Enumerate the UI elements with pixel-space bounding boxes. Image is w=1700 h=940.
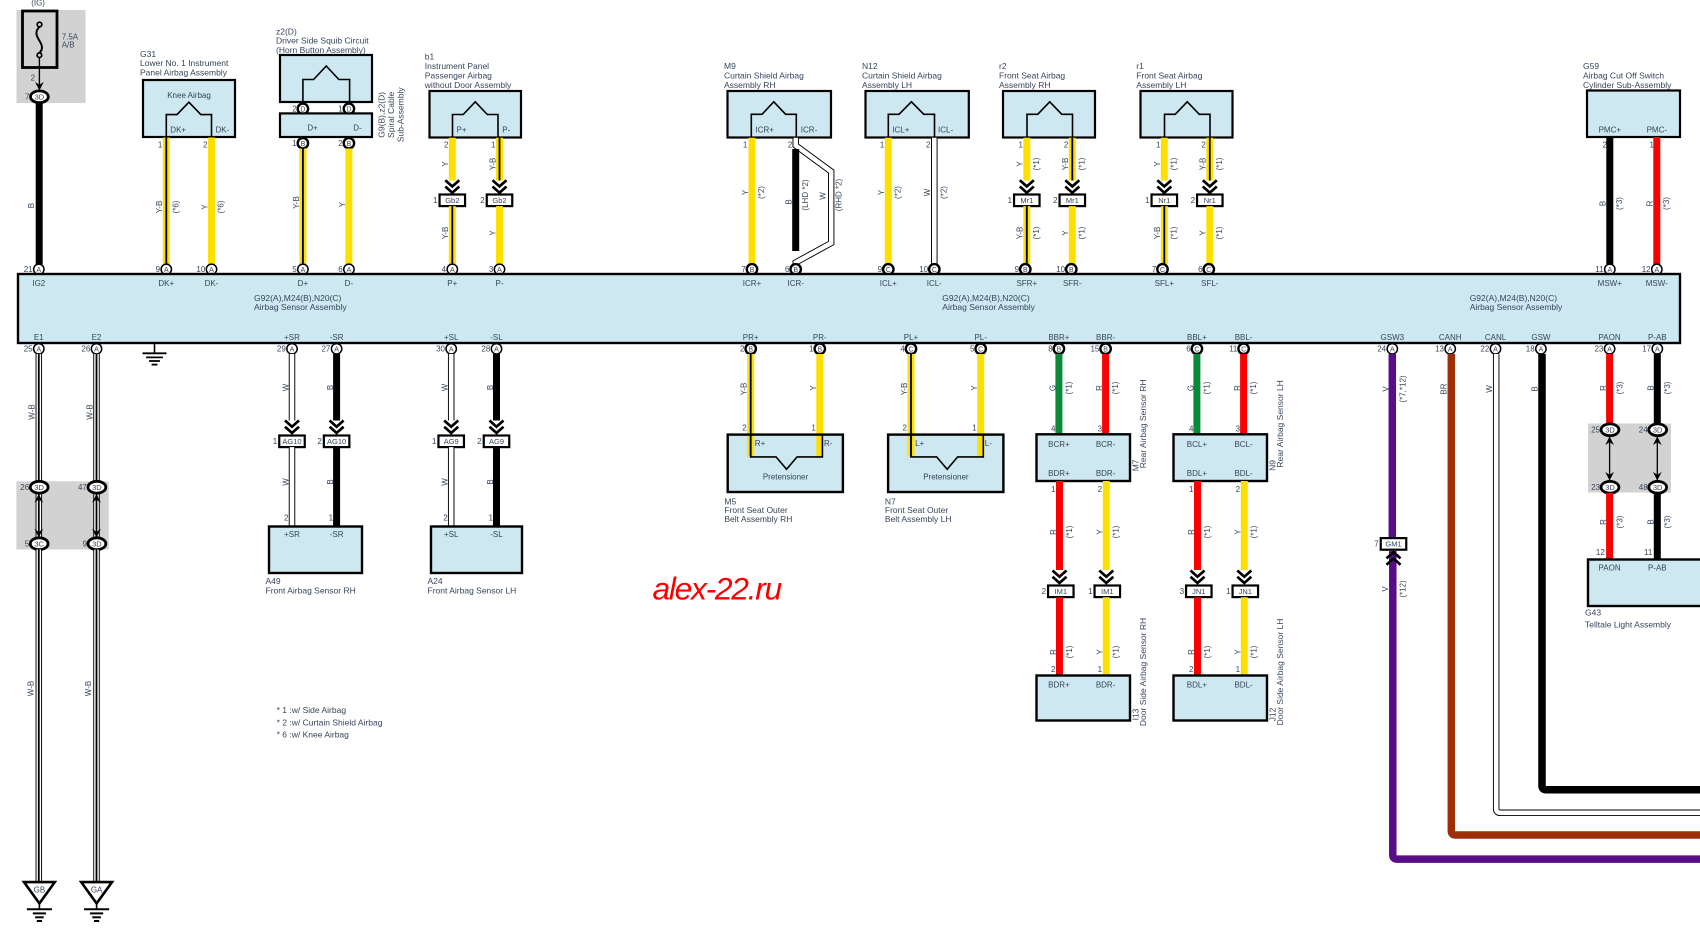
svg-text:CANL: CANL <box>1485 333 1507 342</box>
svg-text:B: B <box>326 479 335 484</box>
wire Y-B (r2-2 upper) <box>1069 138 1076 181</box>
svg-text:B: B <box>347 141 352 148</box>
pin 2 of I13 <box>1051 665 1056 674</box>
svg-text:DK-: DK- <box>205 279 219 288</box>
pin 11 of G43 <box>1644 548 1653 557</box>
svg-text:B: B <box>817 346 822 353</box>
svg-text:A: A <box>1390 346 1395 353</box>
svg-text:6: 6 <box>1198 265 1203 274</box>
svg-text:2: 2 <box>443 514 448 523</box>
wire label B <box>486 385 495 390</box>
component b1 box <box>430 91 522 138</box>
pin 1 of A24 <box>489 514 494 523</box>
wire Y-B labels <box>292 196 301 209</box>
wire label W <box>441 478 450 486</box>
svg-text:29: 29 <box>277 345 286 354</box>
pin 2 of N7 <box>903 424 908 433</box>
wire Y-B (P+ lower) <box>449 206 456 264</box>
svg-text:1: 1 <box>1008 196 1013 205</box>
svg-text:2: 2 <box>1098 485 1103 494</box>
pin 1 of r1 <box>1156 140 1161 149</box>
pin 1 of N9 <box>1189 485 1194 494</box>
svg-text:GM1: GM1 <box>1385 540 1401 549</box>
svg-text:W-B: W-B <box>85 404 94 419</box>
svg-text:(*1): (*1) <box>1170 157 1179 170</box>
svg-text:1: 1 <box>292 139 297 148</box>
wire V (GSW3 upper) <box>1389 354 1397 538</box>
svg-text:Gb2: Gb2 <box>492 196 506 205</box>
svg-text:BDL-: BDL- <box>1234 469 1253 478</box>
svg-text:10: 10 <box>1056 265 1065 274</box>
svg-text:Assembly LH: Assembly LH <box>1136 80 1186 90</box>
svg-text:W-B: W-B <box>84 681 93 696</box>
component J12 name (rotated) <box>1267 707 1277 721</box>
wire G (BBL+) <box>1193 354 1200 435</box>
svg-text:V: V <box>1381 586 1390 592</box>
svg-text:DK-: DK- <box>216 126 230 135</box>
wire labels R (*1) <box>1187 645 1212 658</box>
wire label B <box>27 203 36 208</box>
svg-text:Y-B: Y-B <box>1061 158 1070 171</box>
svg-text:R: R <box>1599 519 1608 525</box>
wire Y labels <box>200 200 225 213</box>
svg-text:Y: Y <box>1234 529 1243 535</box>
node 6(C) BBL+ <box>1186 344 1202 354</box>
svg-text:Airbag Sensor Assembly: Airbag Sensor Assembly <box>1470 302 1563 312</box>
pin 2 of M5 <box>742 424 747 433</box>
component G31 box <box>143 80 235 137</box>
node 6(B) ICR- <box>785 264 801 274</box>
svg-text:IM1: IM1 <box>1055 587 1068 596</box>
wire label W-B <box>85 404 94 419</box>
node 18(A) GSW <box>1526 344 1546 354</box>
svg-text:B: B <box>1647 385 1656 390</box>
svg-text:B: B <box>1103 346 1108 353</box>
component A24 title <box>428 576 517 596</box>
svg-text:10: 10 <box>919 265 928 274</box>
svg-text:48: 48 <box>1639 483 1648 492</box>
svg-text:2: 2 <box>477 437 482 446</box>
arrow out of GM1 <box>1387 552 1401 565</box>
svg-text:SFL-: SFL- <box>1201 279 1219 288</box>
wire Y-B label <box>488 158 497 171</box>
pin 2 of G31 <box>203 140 208 149</box>
band bottom pin names <box>34 333 1667 342</box>
svg-text:2: 2 <box>1064 140 1069 149</box>
wire B (P-AB lower) <box>1654 493 1661 560</box>
svg-text:(LHD *2): (LHD *2) <box>801 179 810 210</box>
svg-text:3D: 3D <box>35 93 45 102</box>
svg-text:BBR-: BBR- <box>1096 333 1115 342</box>
svg-text:Y-B: Y-B <box>1153 227 1162 240</box>
component I13 name (rotated) <box>1130 708 1140 720</box>
M9 pin labels ICR+ ICR- <box>756 126 818 135</box>
wire labels B (*3) <box>1647 515 1672 528</box>
svg-text:Y-B: Y-B <box>292 196 301 209</box>
svg-text:7: 7 <box>1152 265 1157 274</box>
wire labels B (*3) <box>1599 197 1624 210</box>
svg-text:3D: 3D <box>1653 426 1663 435</box>
svg-text:3: 3 <box>1098 424 1103 433</box>
pin 2 of N9 <box>1236 485 1241 494</box>
wire Y labels <box>741 186 766 199</box>
svg-text:9: 9 <box>156 265 161 274</box>
wire Y (P+ upper) <box>449 138 456 181</box>
svg-text:MSW-: MSW- <box>1646 279 1668 288</box>
pin 1 of I13 <box>1098 665 1103 674</box>
svg-text:A49: A49 <box>266 576 281 586</box>
junction arrows P-AB <box>1653 436 1662 481</box>
pin 1 of N12 <box>880 140 885 149</box>
svg-text:(*3): (*3) <box>1615 381 1624 394</box>
component r2 title <box>999 61 1065 90</box>
svg-text:Pretensioner: Pretensioner <box>923 473 969 482</box>
svg-text:PAON: PAON <box>1599 333 1621 342</box>
svg-text:Gb2: Gb2 <box>445 196 459 205</box>
connector Gb2 pin 2 <box>480 195 512 207</box>
svg-text:PMC+: PMC+ <box>1599 126 1622 135</box>
svg-text:2: 2 <box>926 140 931 149</box>
spiral cable box G9(B) <box>280 113 372 137</box>
svg-text:AG10: AG10 <box>282 437 301 446</box>
wire stubs through spiral cable <box>303 102 350 139</box>
wire label B <box>1530 386 1539 391</box>
component M7 name (rotated) <box>1130 459 1140 471</box>
wire W-B (E1 upper) <box>36 354 43 482</box>
component M5 box <box>728 435 843 492</box>
svg-text:23: 23 <box>1591 483 1600 492</box>
svg-text:V: V <box>1382 386 1391 392</box>
svg-text:* 2 :w/ Curtain Shield Airbag: * 2 :w/ Curtain Shield Airbag <box>277 717 383 727</box>
wire Y (SFL- lower) <box>1206 206 1213 264</box>
svg-text:Sub-Assembly: Sub-Assembly <box>396 87 406 143</box>
wire Y (PL-) <box>977 354 984 457</box>
arrow into JN1 (BDL-) <box>1237 571 1251 584</box>
svg-text:(Horn Button Assembly): (Horn Button Assembly) <box>276 45 366 55</box>
svg-text:Pretensioner: Pretensioner <box>763 473 809 482</box>
node 23(A) PAON <box>1594 344 1614 354</box>
svg-text:2: 2 <box>317 437 322 446</box>
svg-text:Rear Airbag Sensor LH: Rear Airbag Sensor LH <box>1275 380 1285 467</box>
component G59 title <box>1583 61 1672 90</box>
svg-text:4: 4 <box>442 265 447 274</box>
junction arrows E1 <box>34 494 43 538</box>
svg-text:4: 4 <box>900 345 905 354</box>
connector 24(3D) P-AB <box>1639 424 1667 436</box>
svg-text:P-: P- <box>496 279 504 288</box>
wire Y-B (PR+) <box>747 354 754 457</box>
pin 2 of M9 <box>788 140 793 149</box>
svg-text:2: 2 <box>1191 196 1196 205</box>
svg-text:1: 1 <box>491 140 496 149</box>
svg-text:2: 2 <box>444 140 449 149</box>
pin 1 of N7 <box>972 424 977 433</box>
N12 pin labels ICL+ ICL- <box>892 126 953 135</box>
connector Nr1 pin 2 <box>1191 195 1223 207</box>
svg-text:Mr1: Mr1 <box>1066 196 1079 205</box>
svg-text:SFR-: SFR- <box>1063 279 1082 288</box>
svg-text:BCL+: BCL+ <box>1187 440 1208 449</box>
wire Y-B (PL+) <box>908 354 915 457</box>
svg-text:W: W <box>281 478 290 486</box>
wire labels R (*1) <box>1095 381 1120 394</box>
svg-text:1: 1 <box>338 105 343 114</box>
junction arrows PAON <box>1605 436 1614 481</box>
wire label B <box>326 479 335 484</box>
svg-text:W: W <box>819 192 828 200</box>
svg-text:ICR-: ICR- <box>787 279 804 288</box>
svg-text:Front Airbag Sensor LH: Front Airbag Sensor LH <box>428 586 517 596</box>
svg-text:Y: Y <box>441 161 450 167</box>
component G31 title <box>140 49 229 78</box>
svg-text:1: 1 <box>158 140 163 149</box>
svg-text:21: 21 <box>24 265 33 274</box>
svg-text:5: 5 <box>970 345 975 354</box>
wire B (GSW, to right edge) <box>1542 354 1700 790</box>
wire labels Y-B (*1) <box>1016 226 1041 239</box>
svg-text:A: A <box>494 346 499 353</box>
wire W (CANL, to right edge) <box>1496 354 1700 813</box>
svg-text:(*1): (*1) <box>1170 226 1179 239</box>
svg-text:2: 2 <box>338 139 343 148</box>
svg-text:1: 1 <box>809 345 814 354</box>
pin 2 of r2 <box>1064 140 1069 149</box>
wire labels R (*1) <box>1049 525 1074 538</box>
svg-text:W: W <box>281 383 290 391</box>
svg-text:27: 27 <box>321 345 330 354</box>
arrow into Gb2 (P-) <box>493 180 507 193</box>
svg-text:11: 11 <box>1229 345 1238 354</box>
svg-text:(*2): (*2) <box>940 186 949 199</box>
svg-text:(*1): (*1) <box>1065 525 1074 538</box>
svg-text:17: 17 <box>1642 345 1651 354</box>
pin 1 of r2 <box>1019 140 1024 149</box>
svg-text:3D: 3D <box>92 483 102 492</box>
connector Mr1 pin 2 <box>1053 195 1085 207</box>
G31 pin labels DK+ DK- <box>170 126 229 135</box>
svg-text:without Door Assembly: without Door Assembly <box>424 80 512 90</box>
wire Y (r1-1 upper) <box>1161 138 1168 181</box>
pin 3 of N9 <box>1236 424 1241 433</box>
component M9 title <box>724 61 804 90</box>
band ground (case ground) <box>143 343 167 365</box>
svg-text:47: 47 <box>78 483 87 492</box>
svg-text:1: 1 <box>811 424 816 433</box>
svg-text:DK+: DK+ <box>170 126 186 135</box>
svg-text:BDR+: BDR+ <box>1048 469 1070 478</box>
b1 pin labels P+ P- <box>457 126 511 135</box>
svg-text:1: 1 <box>1236 665 1241 674</box>
svg-text:2: 2 <box>742 424 747 433</box>
component J12 box <box>1174 676 1268 721</box>
svg-text:5: 5 <box>292 265 297 274</box>
svg-text:1: 1 <box>329 514 334 523</box>
svg-text:11: 11 <box>1644 548 1653 557</box>
wire label Y-B <box>740 383 749 396</box>
wire label Y <box>809 385 818 391</box>
arrow into IM1 (BDR-) <box>1099 571 1113 584</box>
component z2(D) title <box>276 26 369 55</box>
connector GM1 pin 7 <box>1374 538 1406 550</box>
svg-text:1: 1 <box>1156 140 1161 149</box>
node 26(A) E2 <box>81 344 101 354</box>
wire labels R (*1) <box>1049 645 1074 658</box>
svg-text:1: 1 <box>1088 587 1093 596</box>
svg-text:D-: D- <box>353 124 362 133</box>
component J12 desc (rotated) <box>1275 619 1285 726</box>
shaded connector area (instrument panel wire) <box>1588 424 1671 493</box>
node 24(A) GSW3 <box>1377 344 1397 354</box>
svg-text:(*12): (*12) <box>1399 580 1408 598</box>
node 30(A) +SL <box>436 344 456 354</box>
svg-text:(*1): (*1) <box>1032 157 1041 170</box>
svg-text:3: 3 <box>489 265 494 274</box>
node 9(A) DK+ <box>156 264 172 274</box>
svg-text:(*1): (*1) <box>1065 645 1074 658</box>
svg-text:PL+: PL+ <box>904 333 919 342</box>
svg-text:1: 1 <box>1189 485 1194 494</box>
svg-text:P+: P+ <box>447 279 457 288</box>
svg-text:5: 5 <box>25 540 30 549</box>
wire G (BBR+) <box>1055 354 1062 435</box>
svg-text:+SR: +SR <box>284 530 300 539</box>
wire Y (ICR+) <box>749 138 756 265</box>
svg-text:A: A <box>334 346 339 353</box>
svg-text:-SL: -SL <box>490 530 503 539</box>
svg-text:1: 1 <box>1098 665 1103 674</box>
svg-text:25: 25 <box>1591 426 1600 435</box>
svg-text:R: R <box>1187 529 1196 535</box>
svg-text:B: B <box>486 385 495 390</box>
svg-text:(*2): (*2) <box>757 186 766 199</box>
wire labels B (*3) <box>1647 381 1672 394</box>
svg-text:R: R <box>1646 200 1655 206</box>
svg-text:Y-B: Y-B <box>740 383 749 396</box>
svg-text:G9(B),z2(D): G9(B),z2(D) <box>377 92 387 138</box>
svg-text:-SR: -SR <box>330 530 344 539</box>
svg-text:28: 28 <box>481 345 490 354</box>
pin 2 of G59 <box>1603 140 1608 149</box>
svg-text:P-AB: P-AB <box>1648 563 1667 572</box>
svg-text:1: 1 <box>1019 140 1024 149</box>
svg-text:B: B <box>301 141 306 148</box>
pin 4 of M7 <box>1051 424 1056 433</box>
svg-text:PAON: PAON <box>1599 563 1621 572</box>
svg-text:CANH: CANH <box>1439 333 1462 342</box>
wire labels Y-B (*1) <box>1199 157 1224 170</box>
svg-text:1: 1 <box>1145 196 1150 205</box>
wire label B <box>326 385 335 390</box>
component N12 box <box>866 91 969 138</box>
svg-text:2: 2 <box>1189 665 1194 674</box>
squib of r2 <box>1027 102 1073 138</box>
svg-text:11: 11 <box>1595 265 1604 274</box>
wire Y-B (D+) <box>299 149 306 265</box>
node 5(A) D+ <box>292 264 308 274</box>
svg-text:W: W <box>441 383 450 391</box>
svg-text:2: 2 <box>1053 196 1058 205</box>
squib of N12 <box>888 102 934 138</box>
component A24 box <box>431 527 522 574</box>
node 10(A) DK- <box>196 264 216 274</box>
svg-text:R-: R- <box>824 439 833 448</box>
svg-text:Door Side Airbag Sensor LH: Door Side Airbag Sensor LH <box>1275 619 1285 726</box>
svg-text:Front Airbag Sensor RH: Front Airbag Sensor RH <box>266 586 356 596</box>
svg-text:AG10: AG10 <box>327 437 346 446</box>
svg-text:MSW+: MSW+ <box>1598 279 1623 288</box>
svg-text:(*1): (*1) <box>1202 381 1211 394</box>
wire Y-B label <box>441 227 450 240</box>
svg-text:1: 1 <box>880 140 885 149</box>
wire Y (P- lower) <box>496 206 503 264</box>
svg-text:Airbag Sensor Assembly: Airbag Sensor Assembly <box>942 302 1035 312</box>
svg-text:Assembly LH: Assembly LH <box>862 80 912 90</box>
svg-text:Belt Assembly LH: Belt Assembly LH <box>885 514 952 524</box>
wire R (BBL-) <box>1240 354 1247 435</box>
svg-text:SFL+: SFL+ <box>1155 279 1175 288</box>
wire R (BDL+ upper) <box>1194 481 1201 570</box>
wire BR (CANH, to right edge) <box>1451 354 1700 835</box>
svg-text:4: 4 <box>1189 424 1194 433</box>
svg-text:R: R <box>1599 385 1608 391</box>
node 28(A) -SL <box>481 344 501 354</box>
spiral cable title (rotated) <box>377 87 406 143</box>
svg-text:R: R <box>1049 529 1058 535</box>
svg-text:R: R <box>1049 649 1058 655</box>
pin 1 of G59 <box>1650 140 1655 149</box>
svg-text:3D: 3D <box>1653 483 1663 492</box>
wire Y (DK-) <box>208 138 215 265</box>
component G59 box <box>1587 91 1680 138</box>
connector Nr1 pin 1 <box>1145 195 1177 207</box>
wire Y label <box>338 201 347 207</box>
node 5(C) PL- <box>970 344 986 354</box>
component M5 title <box>724 496 792 523</box>
wire R (BDR+ upper) <box>1056 481 1063 570</box>
svg-text:24: 24 <box>1377 345 1386 354</box>
svg-text:22: 22 <box>1480 345 1489 354</box>
wire B (MSW+) <box>1606 137 1613 264</box>
svg-text:(*3): (*3) <box>1615 197 1624 210</box>
arrow into IM1 (BDR+) <box>1053 571 1067 584</box>
wire Y labels <box>877 186 902 199</box>
wire labels B (LHD *2) W (RHD *2) <box>785 178 844 211</box>
svg-text:Y: Y <box>1234 649 1243 655</box>
svg-text:P-AB: P-AB <box>1648 333 1667 342</box>
svg-text:P+: P+ <box>457 126 467 135</box>
component z2(D) box <box>280 55 372 102</box>
node 10(C) ICL- <box>919 264 939 274</box>
svg-text:(*1): (*1) <box>1249 381 1258 394</box>
svg-text:(*3): (*3) <box>1663 381 1672 394</box>
connector 26(3D) E1 <box>20 481 48 493</box>
node 11(C) BBL- <box>1229 344 1249 354</box>
wire labels R (*3) <box>1646 197 1671 210</box>
node 15(B) BBR- <box>1090 344 1110 354</box>
arrow into Nr1 (SFL-) <box>1203 180 1217 193</box>
svg-text:B: B <box>326 385 335 390</box>
wire W (+SR lower) <box>289 447 296 526</box>
arrow into AG9 (+SL) <box>444 421 458 434</box>
svg-text:A: A <box>1607 346 1612 353</box>
svg-text:(*1): (*1) <box>1203 525 1212 538</box>
shaded connector area (floor wire) <box>16 481 108 549</box>
wire Y (BDL- upper) <box>1241 481 1248 570</box>
svg-text:1: 1 <box>433 196 438 205</box>
svg-text:-SR: -SR <box>330 333 344 342</box>
component M7 box <box>1037 434 1131 481</box>
svg-text:Assembly RH: Assembly RH <box>999 80 1050 90</box>
